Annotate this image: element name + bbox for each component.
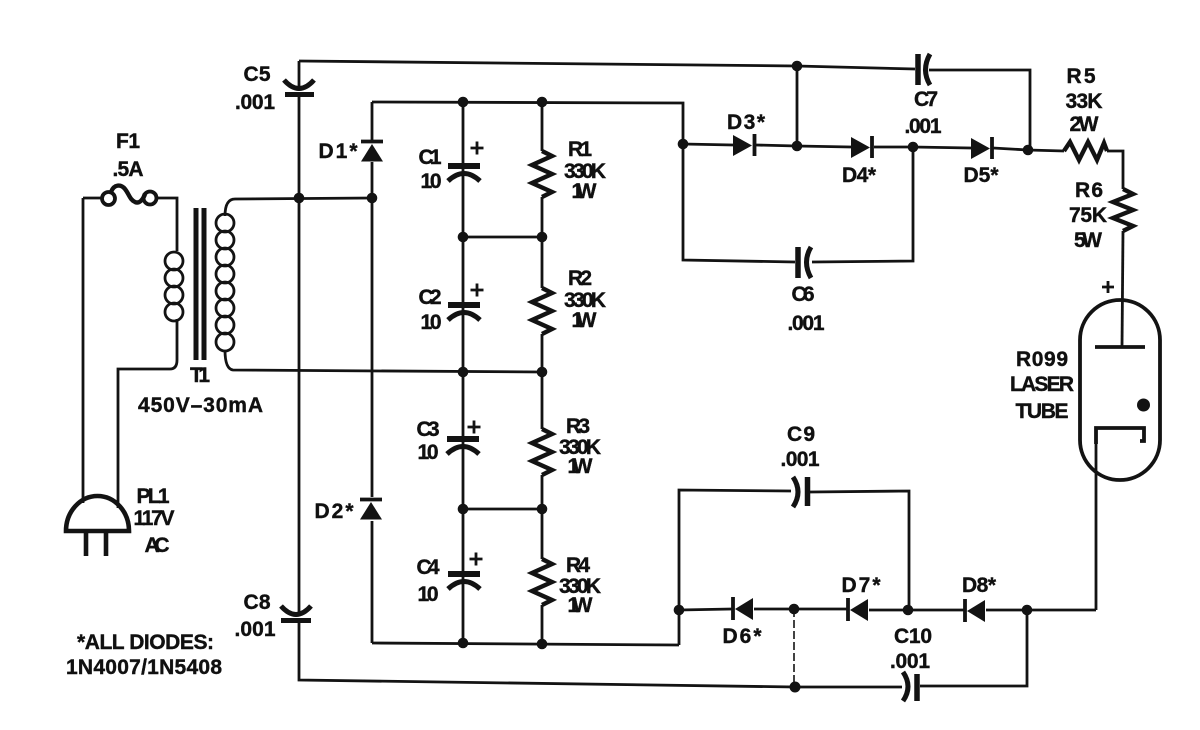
wire R5 corner down to R6 <box>1107 151 1123 189</box>
capacitor C8 <box>281 606 311 621</box>
svg-text:10: 10 <box>421 170 442 193</box>
fuse F1 <box>102 186 157 205</box>
capacitor C2 <box>448 284 484 321</box>
wire D4 to node <box>874 146 913 149</box>
capacitor C5 <box>284 80 314 95</box>
diode D2 <box>360 500 382 520</box>
svg-text:R099: R099 <box>1016 348 1068 371</box>
node row1 / C column <box>458 232 469 243</box>
svg-text:C5: C5 <box>244 63 271 86</box>
wire R6 to laser tube anode <box>1122 231 1123 347</box>
wire ladder row 2 from transformer secondary <box>225 350 542 372</box>
node D4-D5 <box>908 142 919 153</box>
node chain left <box>678 139 689 150</box>
wire primary bottom to plug right lead <box>118 319 177 508</box>
svg-text:C3: C3 <box>417 418 440 441</box>
wire chain node to D3 <box>683 144 733 145</box>
capacitor C10 <box>903 672 917 701</box>
node bottom rail / R column <box>537 639 548 650</box>
wire fuse left lead <box>83 197 102 200</box>
capacitor C3 <box>447 421 481 455</box>
wire ladder row 3 <box>463 508 542 511</box>
svg-text:PL1: PL1 <box>137 485 170 508</box>
wire D7 to node <box>869 609 908 612</box>
wire C6 loop left <box>683 144 795 262</box>
diode D7 <box>848 598 868 621</box>
laser tube R099 <box>1080 281 1160 480</box>
svg-text:.001: .001 <box>235 618 276 641</box>
wire resistor column segment above R1 <box>541 102 544 151</box>
svg-text:.001: .001 <box>890 650 930 673</box>
capacitor C6 <box>798 247 811 278</box>
node secondary top / C5 column <box>294 193 305 204</box>
capacitor C4 <box>448 553 483 590</box>
wire transformer secondary top <box>225 198 372 216</box>
svg-text:.001: .001 <box>235 91 275 114</box>
node bottom chain left <box>674 605 685 616</box>
svg-text:C4: C4 <box>417 556 440 579</box>
svg-text:D3*: D3* <box>727 111 766 134</box>
wire resistor column R3-R4 <box>541 475 544 559</box>
diode D4 <box>851 136 872 158</box>
svg-text:1W: 1W <box>572 309 597 332</box>
diode D6 <box>733 597 753 620</box>
wire C6 loop right <box>812 147 913 262</box>
wire D1 top lead <box>371 102 374 140</box>
resistor R1 <box>532 151 552 197</box>
node top rail / drop <box>792 61 803 72</box>
node D5-R5 <box>1023 145 1034 156</box>
svg-text:.001: .001 <box>905 115 942 138</box>
diode D3 <box>733 134 755 156</box>
svg-text:C1: C1 <box>419 146 442 169</box>
svg-text:1W: 1W <box>568 594 593 617</box>
node D6-D7 <box>789 604 800 615</box>
svg-text:C8: C8 <box>244 591 271 614</box>
node D8-tube <box>1022 605 1033 616</box>
wire C9 right to bottom diode chain <box>810 491 909 610</box>
capacitor C9 <box>793 477 808 507</box>
wire capacitor ladder column <box>462 102 465 643</box>
capacitor C1 <box>448 142 484 182</box>
svg-text:10: 10 <box>418 583 439 606</box>
svg-text:D5*: D5* <box>964 164 1000 187</box>
svg-text:450V–30mA: 450V–30mA <box>138 394 263 417</box>
resistor R4 <box>532 559 552 605</box>
svg-text:T1: T1 <box>190 364 210 387</box>
svg-text:1N4007/1N5408: 1N4007/1N5408 <box>66 656 222 679</box>
diode D5 <box>971 137 992 159</box>
wire D6 to node <box>754 608 794 611</box>
wire node to D4 <box>797 146 851 147</box>
wire D8 to node <box>986 609 1027 612</box>
svg-text:.001: .001 <box>788 312 825 335</box>
wire D2 bottom lead <box>371 521 374 643</box>
node row3 / C column <box>458 504 469 515</box>
svg-text:C7: C7 <box>914 88 938 111</box>
node D3-D4 <box>792 141 803 152</box>
svg-text:R1: R1 <box>568 138 592 161</box>
node bottom rail / C column <box>458 638 469 649</box>
diode D1 <box>361 142 383 162</box>
svg-text:D6*: D6* <box>723 625 763 648</box>
wire node to D7 <box>794 608 847 611</box>
wire resistor column R2-R3 <box>541 334 544 429</box>
wire plug left lead <box>82 198 85 503</box>
capacitor C7 <box>918 54 930 85</box>
svg-text:LASER: LASER <box>1010 373 1074 396</box>
svg-text:.001: .001 <box>781 448 820 471</box>
svg-text:33K: 33K <box>1066 90 1103 113</box>
wire node to tube cathode lead <box>1027 609 1096 612</box>
wire node to R5 <box>1028 150 1064 151</box>
svg-text:D2*: D2* <box>315 500 355 523</box>
node row2 / R column <box>537 367 548 378</box>
svg-text:D4*: D4* <box>842 164 877 187</box>
wire laser tube cathode lead <box>1095 430 1098 610</box>
svg-text:.5A: .5A <box>113 158 144 181</box>
svg-text:10: 10 <box>418 441 439 464</box>
wire bottom chain node to D6 <box>679 609 732 610</box>
plug PL1 <box>66 496 129 556</box>
svg-text:R3: R3 <box>566 415 590 438</box>
diode D8 <box>965 599 985 622</box>
svg-text:R4: R4 <box>566 554 590 577</box>
resistor R6 <box>1113 189 1133 231</box>
transformer T1 <box>165 208 234 360</box>
wire resistor column below R4 <box>541 605 544 644</box>
wire bottommost rail right with corner up <box>920 610 1027 686</box>
node row1 / R column <box>537 232 548 243</box>
wire node to D8 <box>908 609 964 612</box>
svg-text:TUBE: TUBE <box>1016 400 1069 423</box>
resistor R5 <box>1064 142 1107 160</box>
svg-text:5W: 5W <box>1074 229 1102 252</box>
wire top rail left <box>299 61 915 69</box>
wire drop from top rail to D3-D4 node <box>796 66 799 146</box>
svg-text:1W: 1W <box>568 455 593 478</box>
wire D1 to D2 <box>371 162 374 497</box>
wire node to D5 <box>913 147 971 148</box>
wire ladder bottom rail <box>372 643 679 645</box>
svg-text:10: 10 <box>421 311 442 334</box>
svg-text:75K: 75K <box>1069 204 1107 227</box>
svg-text:C2: C2 <box>419 286 442 309</box>
wire thin link between chain and bottom rail <box>793 609 795 687</box>
svg-text:C9: C9 <box>787 423 815 446</box>
wire C5 to C8 column <box>298 97 301 614</box>
svg-text:*ALL DIODES:: *ALL DIODES: <box>77 631 214 654</box>
svg-text:2W: 2W <box>1070 113 1099 136</box>
svg-text:R5: R5 <box>1067 65 1096 88</box>
node rail2 / C column <box>458 97 469 108</box>
wire second rail with corner down to diode chain <box>372 102 683 144</box>
resistor R2 <box>532 288 552 334</box>
node row3 / R column <box>537 504 548 515</box>
wire resistor column R1-R2 <box>541 197 544 288</box>
svg-text:D7*: D7* <box>842 574 882 597</box>
svg-text:C6: C6 <box>792 283 815 306</box>
wire D5 to node <box>993 148 1028 150</box>
svg-text:D1*: D1* <box>319 140 359 163</box>
wire fuse right lead to transformer primary <box>157 198 177 251</box>
svg-text:F1: F1 <box>116 130 140 153</box>
wire vertical x679 bottom rail to C9 loop <box>679 490 791 645</box>
node bottommost rail <box>790 682 801 693</box>
wire ladder row 1 <box>463 236 542 239</box>
node secondary top / D1 column <box>367 193 378 204</box>
svg-text:R2: R2 <box>568 267 592 290</box>
resistor R3 <box>532 429 552 475</box>
svg-text:AC: AC <box>145 534 170 557</box>
node rail2 / R column <box>537 97 548 108</box>
wire top rail right with corner down <box>929 70 1030 148</box>
wire C8 bottom and bottommost rail left <box>299 623 902 687</box>
svg-text:D8*: D8* <box>962 574 997 597</box>
wire D3 to node <box>756 145 797 146</box>
svg-text:R6: R6 <box>1075 179 1103 202</box>
wire C5 column top <box>298 61 301 88</box>
svg-text:1W: 1W <box>572 180 597 203</box>
svg-text:C10: C10 <box>894 625 932 648</box>
node D7-D8 <box>903 605 914 616</box>
svg-text:117V: 117V <box>134 507 175 530</box>
node row2 / C column <box>458 367 469 378</box>
